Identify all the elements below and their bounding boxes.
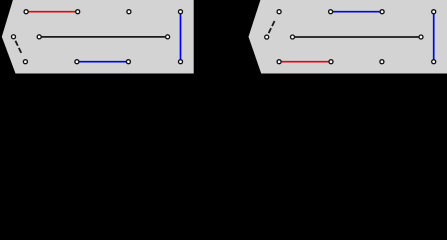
wire black edge R M1-M2 [293, 36, 422, 38]
node L-B1 [23, 60, 27, 64]
node L-T3 [127, 10, 131, 14]
node L-M1 [37, 35, 41, 39]
node R-M1 [291, 35, 295, 39]
node L-T2 [76, 10, 80, 14]
left panel [2, 0, 194, 74]
node R-B3 [380, 60, 384, 64]
node L-T4 [179, 10, 183, 14]
wire blue edge R T4-B4 [433, 12, 435, 62]
node R-B4 [432, 60, 436, 64]
wire dashed edge L M0-B1 [15, 41, 21, 53]
node R-T1 [277, 10, 281, 14]
wire blue edge L B2-B3 [77, 61, 128, 63]
wire red edge R B1-B2 [279, 61, 331, 63]
wire blue edge L T4-B4 [180, 12, 182, 62]
node R-T4 [432, 10, 436, 14]
node L-M0 [12, 35, 16, 39]
node L-T1 [24, 10, 28, 14]
node R-B1 [277, 60, 281, 64]
node R-M2 [419, 35, 423, 39]
node L-M2 [166, 35, 170, 39]
right panel [249, 0, 447, 74]
wire blue edge R T2-T3 [331, 11, 383, 13]
node R-T3 [380, 10, 384, 14]
node R-M0 [265, 35, 269, 39]
node R-T2 [329, 10, 333, 14]
node L-B4 [179, 60, 183, 64]
node R-B2 [329, 60, 333, 64]
wire dashed edge R M0-T1 [269, 21, 275, 33]
wire black edge L M1-M2 [39, 36, 167, 38]
node L-B3 [126, 60, 130, 64]
node L-B2 [75, 60, 79, 64]
wire red edge L T1-T2 [26, 11, 78, 13]
